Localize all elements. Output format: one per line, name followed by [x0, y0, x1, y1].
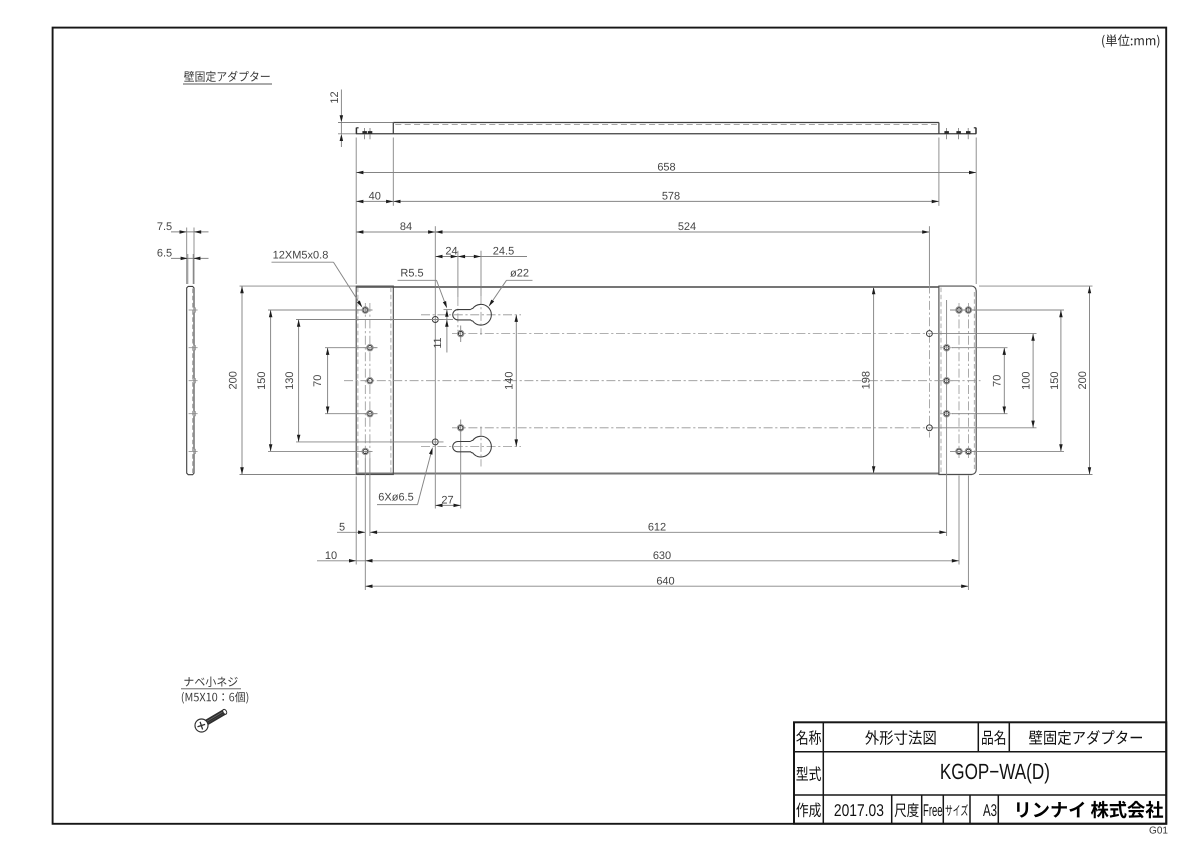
dimension 198 (main plate height): [873, 287, 875, 474]
top view: left screws (2) on flange: [364, 128, 366, 139]
keyhole circle vertical centre lines: [480, 296, 482, 336]
extension lines for 84/524/24/24.5: [434, 226, 436, 313]
dimension 40: [356, 200, 393, 202]
svg-text:200: 200: [228, 371, 240, 389]
svg-text:R5.5: R5.5: [400, 268, 423, 280]
bottom extension lines: [355, 477, 357, 565]
extension through M5 keyhole-side holes down to 27 dim: [460, 326, 462, 343]
dimension 11 (keyhole slot to hole row): [444, 309, 453, 311]
dimension 84: [356, 231, 435, 233]
front view: bend hidden lines: [357, 288, 359, 474]
svg-text:100: 100: [1021, 372, 1033, 390]
dimension 24.5: [458, 256, 481, 258]
top view: hidden line (inner face): [395, 124, 937, 126]
dimension 140 (between keyhole rows): [515, 315, 517, 447]
tapped hole B2 (centre): [367, 377, 374, 384]
dimension 24: [435, 256, 458, 258]
svg-text:6.5: 6.5: [157, 247, 172, 259]
title block column lines: [822, 722, 824, 823]
extension lines (right dims 70/100/150/200): [950, 309, 1064, 311]
title block row lines: [794, 751, 1166, 753]
right pair tapped holes bottom: [956, 448, 963, 455]
dimension 200 right: [1089, 286, 1091, 474]
tapped hole B3: [367, 410, 374, 417]
keyhole slot lower: [453, 436, 492, 457]
front view: right tab outline (rounded right corners): [939, 286, 976, 474]
svg-text:84: 84: [400, 221, 412, 233]
svg-text:24.5: 24.5: [493, 246, 514, 258]
svg-text:200: 200: [1077, 371, 1089, 389]
note: pan head screw title: [184, 677, 237, 687]
svg-text:G01: G01: [1149, 826, 1168, 837]
extension lines (left dims 200/150/130/70): [240, 285, 357, 287]
long extension line through left phi6.5 holes: [434, 314, 436, 509]
svg-text:640: 640: [656, 575, 674, 587]
top view: right screws (3) on flange: [946, 128, 948, 139]
dimension 524: [435, 231, 929, 233]
top view: main body outline: [393, 122, 939, 124]
title block frame: [794, 722, 1166, 823]
svg-text:70: 70: [312, 375, 324, 387]
keyhole slot upper (R5.5 / phi22): [453, 304, 492, 325]
svg-text:140: 140: [503, 372, 515, 390]
title block text: size label: [945, 804, 968, 816]
extension through right middle column down to 612 dim: [946, 300, 948, 536]
front view: main plate top edge (thick): [356, 286, 939, 288]
dimension 630: [365, 560, 959, 562]
svg-text:Free: Free: [923, 801, 943, 820]
extension lines from top view down to dims: [355, 138, 357, 285]
dimension 70 left: [327, 348, 329, 414]
dimension 27: [435, 504, 460, 506]
title block text: gaikei sunpo-zu (outline dimension drawing): [865, 730, 935, 745]
title block text: katashiki (model): [796, 766, 821, 781]
dimension 578: [393, 200, 939, 202]
svg-text:24: 24: [445, 246, 457, 258]
svg-text:630: 630: [653, 550, 671, 562]
column A centre line: [364, 303, 366, 459]
svg-text:612: 612: [648, 521, 666, 533]
side view: hole traces: [189, 309, 198, 311]
centre line row y=427.7 (M5/phi6.5 lower): [452, 427, 938, 429]
right pair tapped holes top: [956, 307, 963, 314]
front view: horizontal centre line: [344, 380, 981, 382]
svg-text:150: 150: [1049, 372, 1061, 390]
side view: hidden bend line: [192, 289, 194, 474]
phi6.5 hole right upper: [926, 331, 932, 337]
svg-text:12XM5x0.8: 12XM5x0.8: [273, 250, 329, 262]
dimension 150 left: [270, 310, 272, 451]
keyhole centre row lower: [421, 446, 521, 448]
dimension 70 right: [1003, 348, 1005, 414]
tapped hole M5 lower (keyhole side): [457, 425, 464, 432]
title block text: hinmei (product name): [982, 730, 1005, 745]
svg-text:70: 70: [992, 375, 1004, 387]
dimension 200 left: [241, 286, 243, 474]
title block text: Rinnai Corporation logo: [1017, 801, 1163, 818]
top view: right hem lip: [975, 128, 977, 134]
svg-text:KGOP−WA(D): KGOP−WA(D): [940, 759, 1050, 784]
top view: left hem lip: [355, 128, 357, 134]
right middle tapped holes: [943, 344, 950, 351]
tapped hole B1: [367, 344, 374, 351]
dimension 658 overall: [356, 172, 976, 174]
side view: plate profile: [187, 286, 194, 474]
top view: extension lines left: [338, 122, 393, 124]
slot cap centre line: [457, 297, 459, 331]
front view: main plate bottom edge (thick): [356, 472, 939, 474]
svg-text:27: 27: [441, 494, 453, 506]
tapped hole M5 upper (keyhole side): [457, 330, 464, 337]
dimension 640: [365, 585, 968, 587]
svg-text:658: 658: [657, 162, 675, 174]
title block text: meisho (name): [796, 730, 821, 745]
svg-text:12: 12: [329, 91, 341, 103]
tapped hole A1 (12XM5x0.8): [362, 307, 369, 314]
svg-text:5: 5: [339, 521, 345, 533]
right phi6.5 column centre line: [928, 285, 930, 438]
dimension 130 left: [298, 320, 300, 442]
front view: left flange strip outline: [356, 286, 393, 474]
svg-text:130: 130: [284, 372, 296, 390]
dimension 612: [370, 531, 947, 533]
svg-text:198: 198: [861, 371, 873, 389]
dimension 10: [317, 560, 356, 562]
view title: wall-fix adapter: [184, 71, 270, 82]
svg-text:150: 150: [256, 372, 268, 390]
svg-text:2017.03: 2017.03: [834, 801, 884, 820]
phi6.5 hole left upper: [432, 317, 438, 323]
svg-text:7.5: 7.5: [157, 221, 172, 233]
svg-text:6Xø6.5: 6Xø6.5: [378, 492, 413, 504]
svg-text:578: 578: [662, 191, 680, 203]
phi6.5 hole left lower: [432, 439, 438, 445]
svg-text:ø22: ø22: [510, 268, 529, 280]
dimension 5: [337, 531, 365, 533]
centre line row y=333.7 (M5/phi6.5 upper): [452, 333, 938, 335]
phi6.5 hole right lower: [926, 425, 932, 431]
title block text: shakudo (scale): [895, 803, 919, 817]
svg-text:524: 524: [678, 221, 696, 233]
dimension 100 right: [1032, 334, 1034, 428]
title block text: sakusei (created): [796, 803, 821, 818]
right pair column centre lines: [958, 303, 960, 458]
svg-text:A3: A3: [983, 801, 997, 820]
note: M5X10 6pcs: [182, 692, 249, 704]
dimension 12 (thickness): [340, 90, 342, 116]
keyhole centre row upper: [421, 314, 521, 316]
dimension 7.5 (side view): [186, 228, 188, 285]
tapped hole A2: [362, 448, 369, 455]
title block text: wall-fix adapter: [1029, 730, 1142, 745]
pan head screw drawing: [195, 709, 228, 732]
svg-text:40: 40: [369, 191, 381, 203]
column B centre line: [369, 303, 371, 459]
svg-text:10: 10: [325, 550, 337, 562]
dimension 6.5 (side view): [187, 254, 189, 284]
units note (tan-i mm): [1102, 34, 1159, 47]
dimension 150 right: [1060, 310, 1062, 451]
svg-text:11: 11: [432, 337, 444, 348]
